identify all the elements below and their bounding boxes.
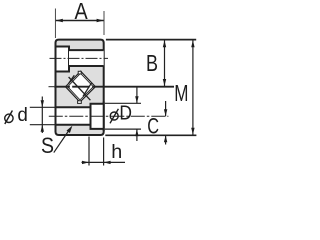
- bottom extension line: [105, 134, 196, 136]
- top extension line: [106, 39, 196, 41]
- upper counterbore (white box, open left): [56, 47, 70, 72]
- dimension C: [147, 101, 167, 145]
- roller axis lines: [69, 77, 91, 100]
- svg-text:d: d: [17, 105, 28, 126]
- dimension A: [55, 0, 104, 38]
- svg-text:M: M: [174, 80, 188, 106]
- svg-text:B: B: [146, 50, 158, 76]
- svg-text:C: C: [147, 113, 159, 138]
- lower hole centerline: [49, 115, 169, 117]
- vertex squares: [78, 71, 81, 74]
- part body (gray section): [56, 40, 104, 135]
- upper small hole (white band): [69, 50, 104, 66]
- left face line lower: [55, 106, 57, 127]
- svg-text:D: D: [119, 102, 132, 125]
- svg-text:A: A: [75, 0, 89, 24]
- svg-text:S: S: [41, 133, 54, 158]
- right face line over lower opening: [103, 102, 105, 132]
- dimension phi-d: [5, 97, 56, 134]
- dimension M: [174, 40, 194, 135]
- S label with leader: [41, 126, 72, 159]
- lower small hole (white band): [56, 107, 91, 124]
- lower counterbore (white box, open right): [91, 104, 104, 129]
- svg-text:h: h: [111, 141, 122, 163]
- mid reference line (thick dash-dot): [49, 86, 55, 88]
- diamond (crossed roller section): [66, 71, 96, 103]
- phi symbol: [5, 114, 13, 122]
- upper hole centerline: [50, 57, 109, 59]
- dimension h: [82, 137, 126, 166]
- dimension B: [146, 40, 166, 86]
- left face line over upper opening: [55, 43, 57, 73]
- dimension phi-D: [105, 88, 141, 142]
